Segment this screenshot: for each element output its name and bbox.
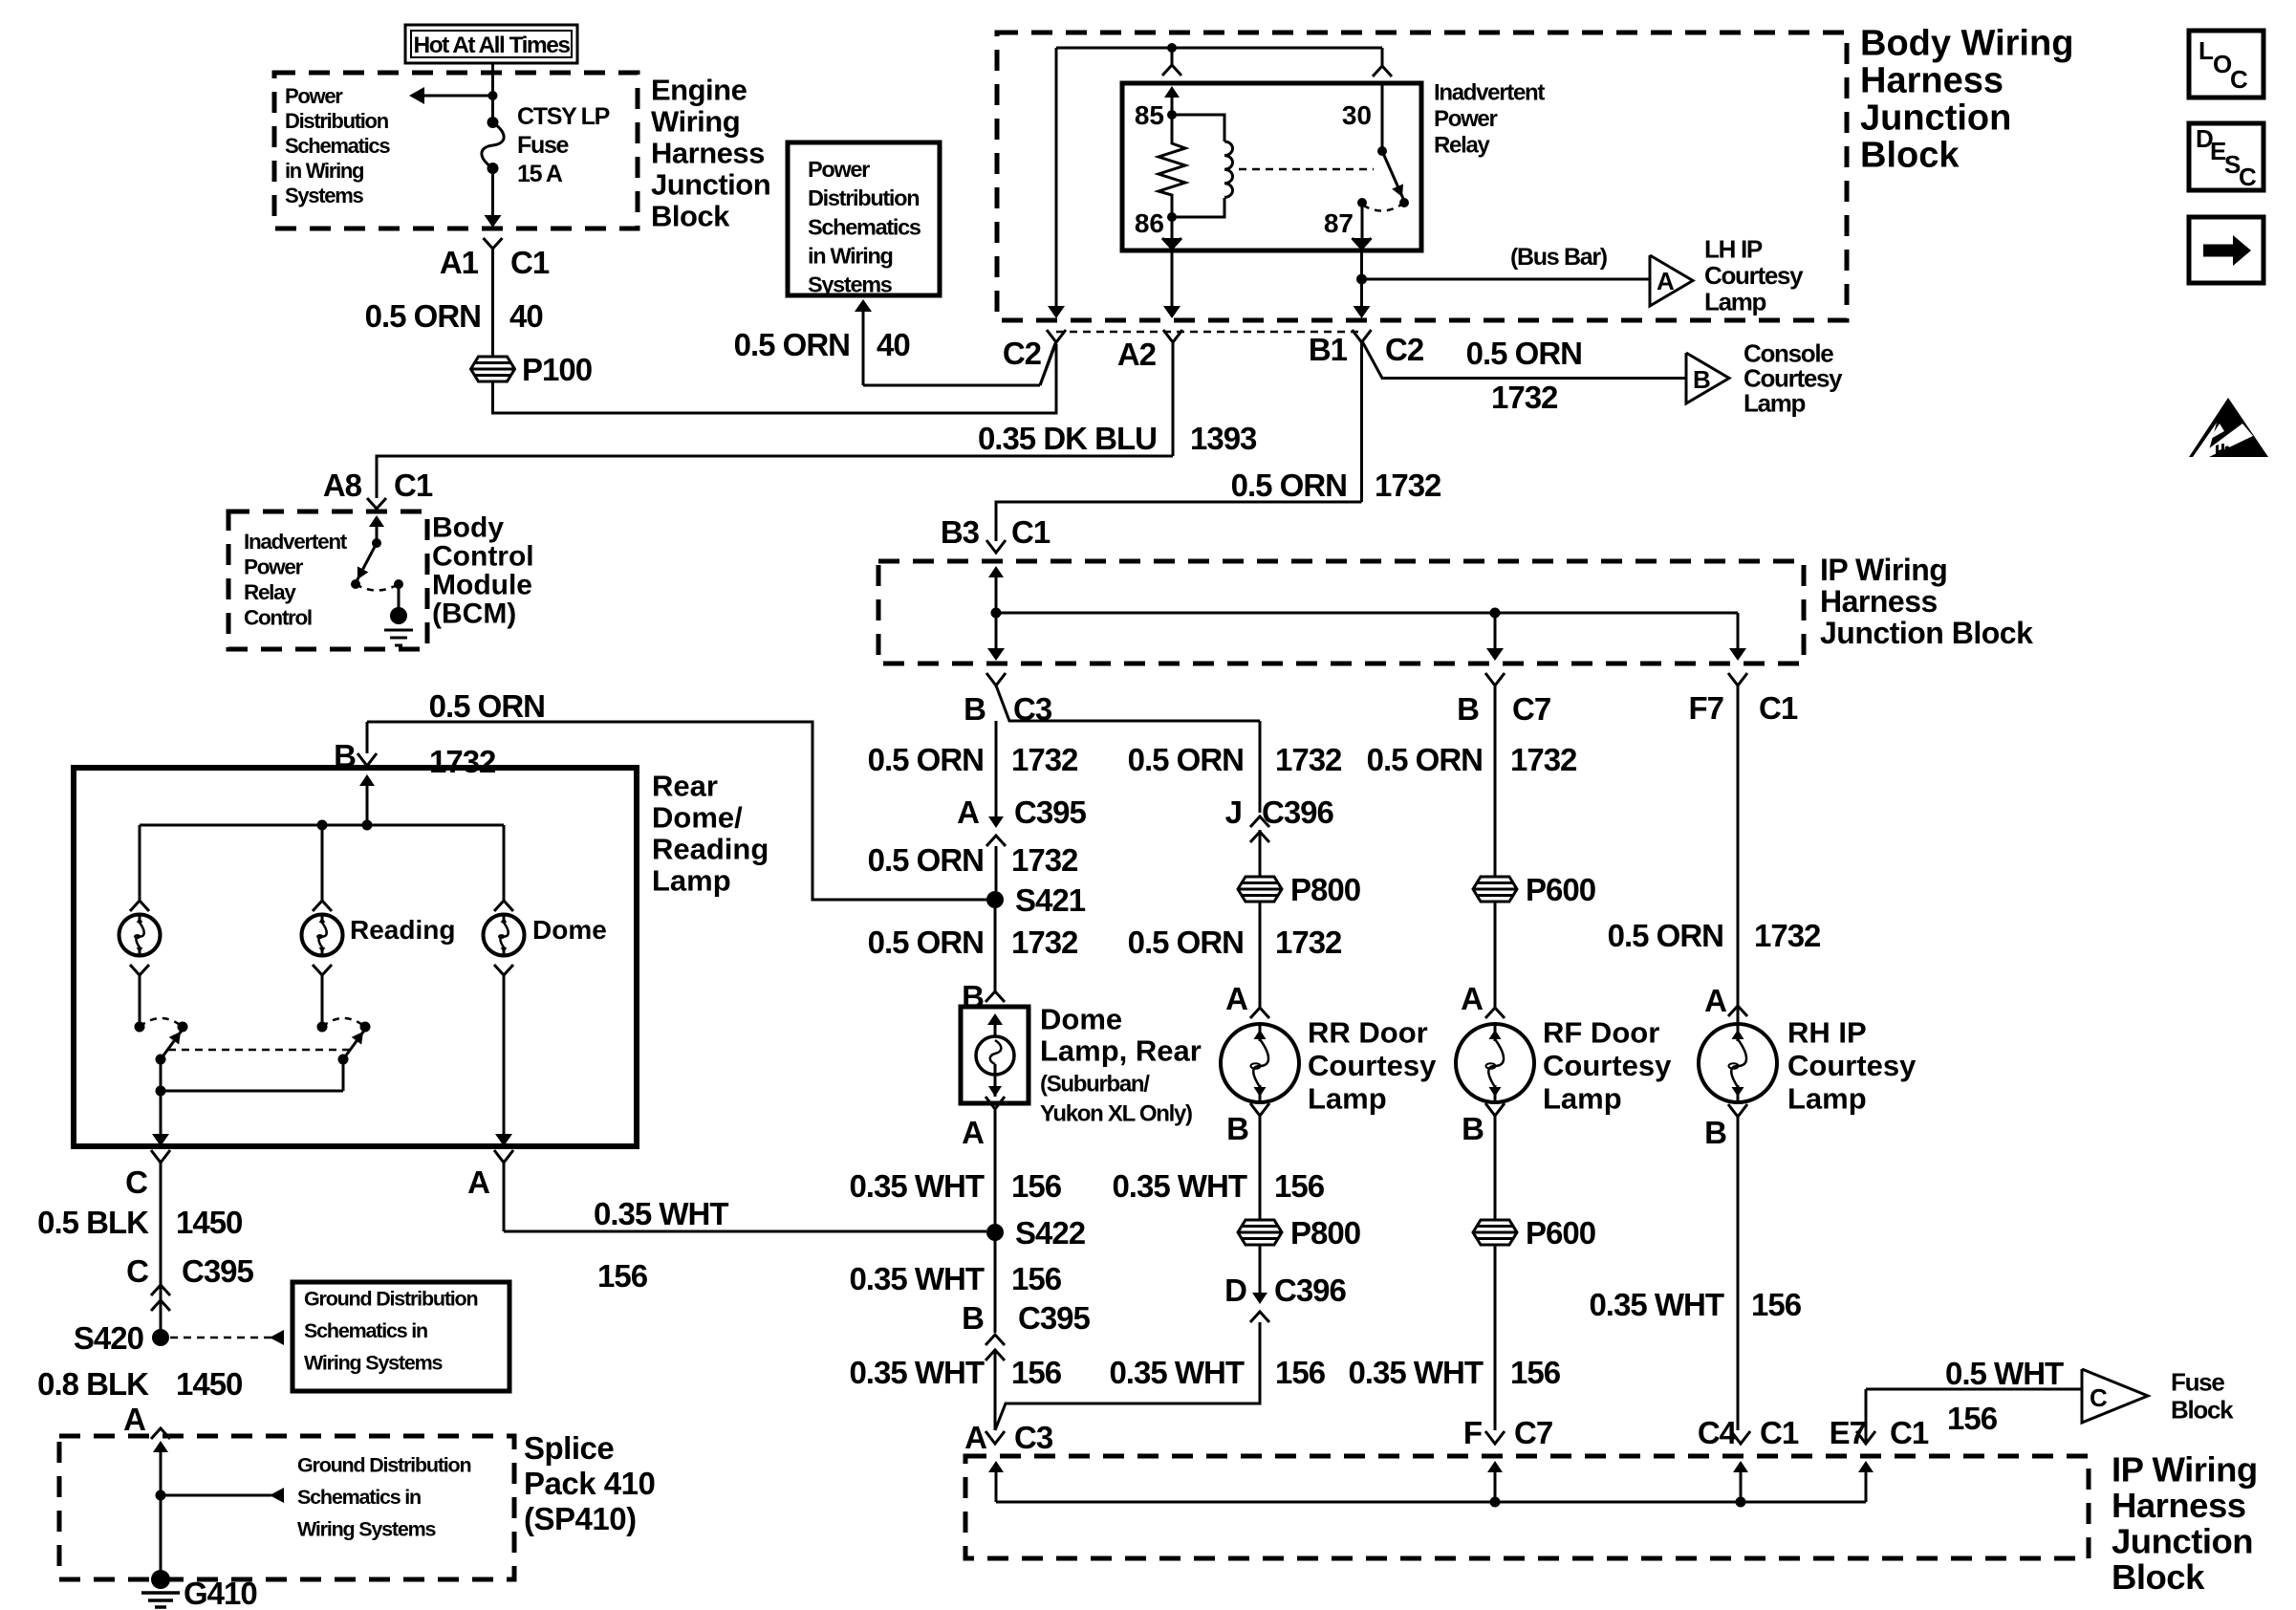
- svg-text:C395: C395: [182, 1253, 254, 1289]
- RH IP courtesy lamp bulb: [1699, 1024, 1777, 1102]
- svg-text:C1: C1: [1011, 514, 1051, 550]
- svg-text:Control: Control: [244, 606, 312, 630]
- svg-text:Harness: Harness: [651, 136, 765, 169]
- svg-text:Power: Power: [808, 157, 870, 182]
- wire: S421 down to dome lamp rear: [994, 900, 997, 991]
- svg-text:G410: G410: [184, 1576, 257, 1610]
- svg-text:0.5 ORN: 0.5 ORN: [1466, 336, 1582, 371]
- svg-text:1732: 1732: [1375, 468, 1441, 503]
- svg-text:Schematics: Schematics: [808, 214, 921, 239]
- svg-text:0.35 DK BLU: 0.35 DK BLU: [978, 421, 1157, 456]
- svg-text:S422: S422: [1015, 1215, 1086, 1251]
- wire: battery feed into fuse: [491, 63, 494, 122]
- relay resistor element: [1159, 115, 1185, 217]
- svg-text:A2: A2: [1117, 337, 1157, 372]
- svg-text:C7: C7: [1514, 1415, 1552, 1450]
- svg-text:(SP410): (SP410): [524, 1501, 637, 1536]
- svg-text:CTSY LP: CTSY LP: [517, 103, 610, 130]
- svg-text:40: 40: [877, 327, 910, 362]
- svg-text:156: 156: [1011, 1261, 1062, 1296]
- svg-text:RF Door: RF Door: [1543, 1015, 1659, 1049]
- svg-text:Distribution: Distribution: [808, 185, 919, 210]
- svg-text:0.5 ORN: 0.5 ORN: [1128, 925, 1244, 960]
- svg-text:1450: 1450: [176, 1366, 242, 1402]
- svg-text:0.5 ORN: 0.5 ORN: [868, 842, 984, 878]
- inline connector C395 terminal B (double chevron up): [986, 1335, 1005, 1345]
- wire: 0.5 ORN 1732 to rear dome/reading lamp: [367, 722, 986, 900]
- connector terminal B below RF door lamp: [1485, 1103, 1505, 1116]
- reading lamp 2 branch: [321, 825, 324, 901]
- svg-text:Engine: Engine: [651, 73, 747, 106]
- svg-text:Power: Power: [244, 555, 304, 579]
- svg-text:0.8 BLK: 0.8 BLK: [37, 1366, 149, 1402]
- svg-text:B: B: [1704, 1115, 1726, 1150]
- connector C7 terminal B (chevron): [1485, 673, 1505, 685]
- svg-text:P800: P800: [1290, 1215, 1360, 1251]
- IP wiring harness junction block (dashed box, upper): [878, 561, 1804, 664]
- relay pin 85 wire: [1171, 97, 1174, 115]
- svg-text:E7: E7: [1830, 1415, 1866, 1450]
- dome lamp rear bulb: [987, 1013, 1003, 1025]
- svg-text:156: 156: [1510, 1355, 1561, 1390]
- pass-through grommet P100: [471, 357, 515, 381]
- svg-text:30: 30: [1342, 100, 1372, 130]
- connector terminal at relay pin 30: [1373, 66, 1392, 76]
- off-page triangle A: LH IP Courtesy Lamp: [1650, 255, 1693, 306]
- svg-text:A: A: [962, 1115, 984, 1150]
- svg-text:Courtesy: Courtesy: [1704, 261, 1804, 290]
- svg-text:Systems: Systems: [808, 272, 893, 297]
- svg-text:B: B: [1462, 1111, 1484, 1146]
- splice S421: [986, 891, 1004, 908]
- svg-text:85: 85: [1135, 100, 1164, 130]
- svg-text:1732: 1732: [1754, 918, 1821, 953]
- icon box: right arrow: [2189, 217, 2264, 283]
- svg-text:1732: 1732: [1011, 842, 1078, 878]
- svg-text:Ground Distribution: Ground Distribution: [297, 1453, 470, 1476]
- RF door courtesy lamp bulb: [1456, 1024, 1534, 1102]
- ground symbol inside BCM: [398, 584, 401, 610]
- off-page triangle B: Console Courtesy Lamp: [1686, 353, 1729, 403]
- svg-text:156: 156: [1947, 1401, 1998, 1436]
- svg-text:LH IP: LH IP: [1704, 235, 1763, 264]
- svg-text:B1: B1: [1309, 332, 1348, 367]
- svg-text:40: 40: [509, 298, 543, 334]
- svg-text:Reading: Reading: [350, 915, 455, 945]
- svg-text:A: A: [467, 1164, 489, 1200]
- svg-text:P600: P600: [1526, 872, 1595, 907]
- svg-text:Dome/: Dome/: [652, 800, 743, 834]
- svg-text:S421: S421: [1015, 882, 1086, 918]
- wire: dome lamp to output A: [503, 975, 506, 1136]
- svg-text:Courtesy: Courtesy: [1787, 1049, 1917, 1082]
- connector C1 terminal E7 (chevron): [1856, 1431, 1875, 1444]
- svg-text:Power: Power: [1434, 106, 1497, 132]
- inline connector C395 terminal C (double chevron): [151, 1285, 170, 1295]
- pass-through grommet P800 (upper): [1238, 877, 1282, 902]
- connector terminal A at RF door lamp: [1485, 1008, 1505, 1018]
- inline connector C396 terminal J (double chevron up): [1250, 816, 1269, 827]
- svg-text:1732: 1732: [1011, 925, 1078, 960]
- splice S422: [986, 1224, 1004, 1241]
- svg-text:Junction: Junction: [1860, 98, 2011, 138]
- svg-text:(Suburban/: (Suburban/: [1040, 1071, 1150, 1097]
- svg-text:0.5 ORN: 0.5 ORN: [868, 742, 984, 777]
- svg-text:C1: C1: [510, 245, 550, 280]
- wire: junction block internal bus to relay pins 85 and 30: [1056, 47, 1382, 50]
- connector C1 terminal A8 at BCM: [367, 498, 386, 509]
- dome lamp rear box: [961, 1007, 1029, 1103]
- svg-text:A: A: [123, 1402, 145, 1437]
- svg-text:Schematics in: Schematics in: [304, 1319, 427, 1342]
- connector terminal A below dome lamp rear: [986, 1097, 1005, 1109]
- svg-text:C2: C2: [1385, 332, 1424, 367]
- svg-text:L: L: [2199, 36, 2214, 65]
- svg-text:C: C: [125, 1164, 147, 1200]
- RR door courtesy lamp bulb: [1221, 1024, 1299, 1102]
- svg-text:1732: 1732: [429, 744, 496, 779]
- svg-text:Harness: Harness: [2112, 1486, 2246, 1525]
- wire: P100 to body junction block C2: [493, 344, 1057, 413]
- svg-text:Lamp: Lamp: [1543, 1081, 1622, 1115]
- svg-text:Hot At All Times: Hot At All Times: [414, 33, 571, 58]
- svg-text:Lamp: Lamp: [652, 863, 731, 897]
- svg-text:B: B: [962, 1300, 984, 1336]
- svg-text:C3: C3: [1014, 1420, 1053, 1455]
- junction block: Hot At All Times feed box: [405, 25, 577, 63]
- svg-text:B: B: [1226, 1111, 1248, 1146]
- switch gang dashed link: [168, 1049, 355, 1052]
- svg-text:Wiring Systems: Wiring Systems: [304, 1351, 444, 1374]
- connector terminal A at RH IP lamp: [1728, 1006, 1747, 1016]
- svg-text:Harness: Harness: [1820, 584, 1938, 619]
- svg-text:C: C: [2239, 163, 2257, 191]
- relay actuation dashed line: [1239, 168, 1374, 171]
- svg-text:156: 156: [1274, 1168, 1325, 1204]
- svg-text:156: 156: [1011, 1168, 1062, 1204]
- connector terminal B at dome lamp rear: [986, 991, 1005, 1002]
- svg-text:0.5 ORN: 0.5 ORN: [1231, 468, 1347, 503]
- svg-text:A: A: [1657, 267, 1675, 295]
- svg-text:Schematics in: Schematics in: [297, 1486, 421, 1509]
- svg-text:1732: 1732: [1491, 380, 1558, 415]
- svg-text:A: A: [1461, 981, 1483, 1016]
- svg-text:Wiring: Wiring: [651, 104, 740, 138]
- svg-text:Wiring Systems: Wiring Systems: [297, 1517, 437, 1540]
- svg-text:(Bus Bar): (Bus Bar): [1510, 244, 1608, 271]
- svg-text:0.35 WHT: 0.35 WHT: [1109, 1355, 1244, 1390]
- svg-text:156: 156: [1275, 1355, 1326, 1390]
- svg-text:C1: C1: [1759, 690, 1798, 726]
- svg-text:1732: 1732: [1510, 742, 1577, 777]
- connector C1 terminal C4 (chevron): [1731, 1431, 1750, 1444]
- svg-text:Courtesy: Courtesy: [1543, 1049, 1672, 1082]
- IP junction block internal bus: [988, 566, 1004, 577]
- svg-text:B: B: [1457, 691, 1479, 727]
- rear dome/reading lamp assembly box: [74, 768, 637, 1146]
- svg-text:Harness: Harness: [1860, 60, 2004, 100]
- svg-text:0.5 WHT: 0.5 WHT: [1945, 1356, 2064, 1391]
- svg-text:0.35 WHT: 0.35 WHT: [849, 1261, 984, 1296]
- svg-text:1732: 1732: [1275, 742, 1342, 777]
- connector terminal A at RR door lamp: [1250, 1008, 1269, 1018]
- relay box: Inadvertent Power Relay: [1122, 83, 1421, 250]
- svg-text:RR Door: RR Door: [1308, 1015, 1428, 1049]
- svg-text:Lamp: Lamp: [1744, 389, 1806, 418]
- svg-text:P100: P100: [522, 352, 592, 387]
- svg-text:B: B: [1693, 365, 1711, 394]
- connector link dashed line (C2 A2 B1 row): [1056, 331, 1361, 334]
- svg-text:Lamp, Rear: Lamp, Rear: [1040, 1033, 1202, 1067]
- svg-text:Block: Block: [2112, 1557, 2205, 1597]
- svg-text:Block: Block: [1860, 135, 1960, 175]
- svg-text:0.35 WHT: 0.35 WHT: [1112, 1168, 1246, 1204]
- svg-text:Fuse: Fuse: [517, 132, 570, 159]
- lower IP junction block internal bus: [988, 1461, 1004, 1472]
- svg-text:C395: C395: [1014, 794, 1087, 830]
- svg-text:0.35 WHT: 0.35 WHT: [1589, 1287, 1723, 1322]
- svg-text:156: 156: [1011, 1355, 1062, 1390]
- connector A2 terminal at body junction block: [1163, 330, 1182, 342]
- svg-text:86: 86: [1135, 208, 1164, 238]
- svg-text:87: 87: [1324, 208, 1354, 238]
- svg-text:0.5 ORN: 0.5 ORN: [868, 925, 984, 960]
- svg-text:Junction Block: Junction Block: [1820, 616, 2033, 650]
- svg-text:0.35 WHT: 0.35 WHT: [594, 1196, 728, 1231]
- svg-text:A: A: [964, 1420, 986, 1455]
- svg-text:Junction: Junction: [651, 167, 770, 201]
- svg-text:C1: C1: [1890, 1415, 1929, 1450]
- svg-text:Pack 410: Pack 410: [524, 1466, 655, 1501]
- inline connector C396 terminal D (arrow into chevron): [1252, 1293, 1267, 1304]
- connector terminal B below RR door lamp: [1250, 1103, 1269, 1116]
- svg-text:Block: Block: [2171, 1396, 2234, 1425]
- svg-text:C396: C396: [1274, 1273, 1347, 1308]
- connector B1 / C2 terminal at body junction block: [1353, 330, 1372, 342]
- BCM driver switch (inadvertent power relay control): [369, 515, 384, 527]
- wire: 0.5 WHT 156 to fuse block: [1866, 1388, 2082, 1391]
- splice pack 410 (dashed box): [59, 1436, 514, 1579]
- relay coil node (pin 85 side): [1167, 110, 1177, 120]
- svg-text:Inadvertent: Inadvertent: [1434, 79, 1545, 105]
- reading lamp 1 bulb: [119, 915, 161, 956]
- pass-through grommet P600 (upper): [1473, 877, 1517, 902]
- reference box: Ground Distribution Schematics in Wiring Systems: [292, 1282, 509, 1391]
- svg-text:0.35 WHT: 0.35 WHT: [849, 1355, 984, 1390]
- wire: switch commons to lamp output: [160, 1059, 162, 1091]
- dome lamp branch: [503, 825, 506, 901]
- relay pin 86 wire: [1171, 217, 1174, 239]
- svg-text:S420: S420: [74, 1320, 143, 1356]
- svg-text:0.5 ORN: 0.5 ORN: [429, 688, 545, 724]
- svg-text:1450: 1450: [176, 1205, 242, 1240]
- wire: 0.35 DK BLU 1393 from BCM to A2: [377, 456, 1173, 498]
- svg-text:A: A: [957, 794, 979, 830]
- svg-text:Yukon XL Only): Yukon XL Only): [1040, 1100, 1192, 1126]
- wire: S422 to C395 terminal B: [994, 1232, 997, 1333]
- svg-text:0.35 WHT: 0.35 WHT: [1348, 1355, 1483, 1390]
- svg-text:A1: A1: [440, 245, 479, 280]
- pass-through grommet P800 (lower): [1238, 1220, 1282, 1245]
- svg-text:Reading: Reading: [652, 832, 769, 865]
- svg-text:Relay: Relay: [1434, 132, 1490, 158]
- reference box: Power Distribution Schematics in Wiring Systems: [788, 142, 940, 295]
- svg-text:0.5 ORN: 0.5 ORN: [1608, 918, 1723, 953]
- svg-text:Courtesy: Courtesy: [1308, 1049, 1437, 1082]
- connector C3 terminal B (chevron): [986, 673, 1006, 685]
- connector terminal A below rear dome box: [494, 1150, 513, 1163]
- svg-text:0.5 ORN: 0.5 ORN: [365, 298, 481, 334]
- svg-text:P600: P600: [1526, 1215, 1595, 1251]
- wire: bus bar to LH IP courtesy lamp: [1362, 278, 1651, 281]
- svg-text:156: 156: [597, 1258, 648, 1294]
- svg-text:C3: C3: [1013, 691, 1052, 727]
- svg-text:B: B: [964, 691, 986, 727]
- svg-text:Lamp: Lamp: [1787, 1081, 1867, 1115]
- splice pack internal wire: [153, 1441, 168, 1452]
- connector terminal B at rear dome lamp: [357, 753, 377, 766]
- rear dome lamp internal feed: [359, 774, 375, 786]
- svg-text:Splice: Splice: [524, 1430, 614, 1466]
- svg-text:C2: C2: [1003, 336, 1042, 371]
- dashed reference line from splice pack: [161, 1494, 271, 1497]
- engine wiring harness junction block (dashed box): [274, 73, 638, 228]
- svg-text:Body Wiring: Body Wiring: [1860, 23, 2073, 63]
- reading lamp 1 branch: [139, 825, 141, 901]
- svg-text:P800: P800: [1290, 872, 1360, 907]
- relay coil element: [1172, 115, 1224, 141]
- svg-text:156: 156: [1751, 1287, 1802, 1322]
- wire: 0.5 ORN 40 up-arrow into power distribution box: [863, 384, 1040, 387]
- svg-text:Dome: Dome: [532, 915, 607, 945]
- connector C7 terminal F (chevron): [1485, 1431, 1505, 1444]
- connector C1 terminal A1 (chevron): [484, 238, 503, 249]
- svg-text:Control: Control: [432, 541, 534, 573]
- wire: fuse output to connector C1 pin A1: [491, 168, 494, 216]
- connector C3 terminal A (chevron): [986, 1431, 1005, 1444]
- svg-text:Power: Power: [285, 84, 343, 108]
- BCM switch dashed arc to ground contact: [356, 584, 399, 591]
- relay pin 30 wire and switch arm: [1381, 83, 1384, 151]
- wire: 0.5 ORN 1732 from B1 down to IP junction block B3: [996, 502, 1362, 541]
- inline connector C395 terminal A (arrow into chevron): [995, 721, 998, 824]
- svg-text:IP Wiring: IP Wiring: [1820, 553, 1947, 587]
- svg-text:0.5 ORN: 0.5 ORN: [734, 327, 850, 362]
- connector C2 terminal at body junction block: [1047, 330, 1066, 342]
- svg-text:Ground Distribution: Ground Distribution: [304, 1287, 477, 1310]
- reading lamp 2 bulb: [302, 915, 343, 956]
- body wiring harness junction block (dashed box): [997, 33, 1847, 320]
- svg-text:Block: Block: [651, 199, 730, 232]
- svg-text:1732: 1732: [1275, 925, 1342, 960]
- icon box: LOC: [2189, 31, 2264, 98]
- body control module BCM (dashed box): [228, 511, 427, 649]
- svg-text:F: F: [1463, 1415, 1482, 1450]
- svg-text:A: A: [1225, 981, 1247, 1016]
- svg-text:Body: Body: [432, 512, 504, 544]
- svg-text:A: A: [1704, 983, 1726, 1018]
- wire: C3 B to RR door courtesy lamp: [1259, 721, 1262, 813]
- reading lamp 1 lower terminal: [130, 965, 149, 975]
- svg-text:B3: B3: [941, 514, 980, 550]
- svg-text:C395: C395: [1018, 1300, 1091, 1336]
- svg-text:D: D: [1224, 1273, 1246, 1308]
- svg-text:C: C: [126, 1253, 148, 1289]
- svg-text:C7: C7: [1512, 691, 1550, 727]
- svg-text:RH IP: RH IP: [1787, 1015, 1867, 1049]
- wire: dome lamp A to S422: [504, 1230, 986, 1233]
- svg-text:0.5 ORN: 0.5 ORN: [1128, 742, 1244, 777]
- icon: ESD sensitive device symbol: [2189, 398, 2268, 457]
- svg-text:15 A: 15 A: [517, 161, 563, 187]
- svg-text:IP Wiring: IP Wiring: [2112, 1449, 2258, 1489]
- svg-text:in Wiring: in Wiring: [285, 159, 363, 183]
- svg-text:C396: C396: [1262, 794, 1334, 830]
- svg-text:Fuse: Fuse: [2171, 1368, 2224, 1397]
- svg-text:0.5 BLK: 0.5 BLK: [37, 1205, 149, 1240]
- relay pin 87 wire: [1361, 203, 1364, 239]
- connector terminal below relay pin 86: [1162, 238, 1181, 249]
- dashed reference line from S420: [170, 1337, 271, 1339]
- svg-text:F7: F7: [1688, 690, 1723, 726]
- svg-text:C: C: [2230, 65, 2248, 94]
- node: bus bar junction on pin 87 circuit: [1356, 274, 1367, 285]
- ground G410: [151, 1570, 170, 1589]
- relay switch throw contact (dashed arc) to pin 87: [1362, 203, 1404, 211]
- svg-text:(BCM): (BCM): [432, 598, 516, 630]
- svg-text:Distribution: Distribution: [285, 109, 389, 133]
- lamp switch 2 (reading): [317, 1022, 328, 1033]
- svg-text:Module: Module: [432, 570, 532, 601]
- svg-text:1732: 1732: [1011, 742, 1078, 777]
- icon box: DESC: [2189, 123, 2264, 190]
- wire: branch to power distribution (left arrow): [422, 95, 493, 98]
- pass-through grommet P600 (lower): [1473, 1220, 1517, 1245]
- svg-text:Schematics: Schematics: [285, 134, 390, 158]
- svg-text:1393: 1393: [1190, 421, 1257, 456]
- fuse F1: CTSY LP Fuse 15 A: [487, 117, 499, 128]
- connector terminal below relay pin 87: [1353, 238, 1372, 249]
- svg-text:C: C: [2090, 1383, 2108, 1412]
- svg-text:Inadvertent: Inadvertent: [244, 530, 348, 554]
- connector terminal A at splice pack: [151, 1428, 170, 1439]
- connector C1 terminal F7 (chevron): [1728, 673, 1747, 685]
- lamp switch 1 (reading): [135, 1022, 145, 1033]
- connector terminal at relay pin 85: [1162, 65, 1181, 76]
- connector terminal C below rear dome box: [151, 1150, 170, 1163]
- svg-text:A8: A8: [323, 468, 362, 503]
- IP wiring harness junction block (dashed box, lower): [965, 1456, 2089, 1558]
- svg-text:Junction: Junction: [2112, 1521, 2253, 1560]
- dome lamp bulb: [484, 915, 525, 956]
- svg-text:Lamp: Lamp: [1308, 1081, 1387, 1115]
- svg-text:0.5 ORN: 0.5 ORN: [1367, 742, 1483, 777]
- svg-text:Dome: Dome: [1040, 1002, 1122, 1035]
- svg-text:Lamp: Lamp: [1704, 288, 1766, 316]
- svg-text:in Wiring: in Wiring: [808, 244, 893, 269]
- svg-text:0.35 WHT: 0.35 WHT: [849, 1168, 984, 1204]
- splice S420: [152, 1329, 169, 1346]
- connector terminal B below RH IP lamp: [1728, 1104, 1747, 1117]
- svg-text:Systems: Systems: [285, 184, 363, 207]
- dome lamp lower terminal: [494, 965, 513, 975]
- svg-text:C1: C1: [394, 468, 433, 503]
- svg-text:Relay: Relay: [244, 580, 296, 604]
- reading lamp 2 lower terminal: [313, 965, 332, 975]
- svg-text:C1: C1: [1760, 1415, 1799, 1450]
- off-page triangle C: Fuse Block: [2082, 1369, 2148, 1423]
- svg-text:Rear: Rear: [652, 769, 718, 802]
